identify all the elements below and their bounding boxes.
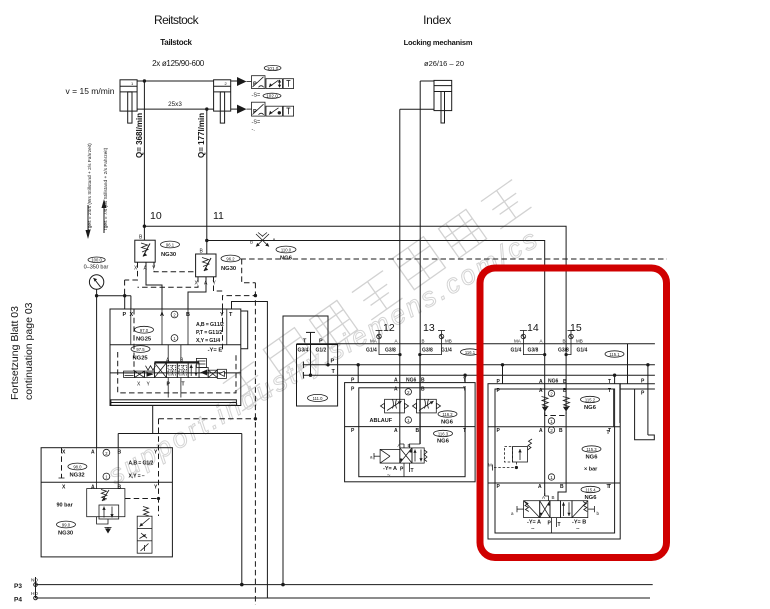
- svg-text:B: B: [563, 339, 566, 344]
- svg-text:P: P: [351, 387, 355, 393]
- svg-text:B: B: [186, 312, 190, 318]
- wire dashed drain frame: [118, 352, 236, 393]
- station 12/13 top labels: [351, 377, 466, 383]
- labels G ports station 14 15: [511, 348, 588, 354]
- svg-text:~: ~: [387, 473, 391, 479]
- node circled 1 mid: [548, 474, 554, 480]
- node circled 1 block98: [103, 473, 110, 480]
- wire Y dashed column: [158, 419, 160, 516]
- svg-text:Locking mechanism: Locking mechanism: [404, 38, 473, 47]
- manifold top line: [297, 343, 655, 345]
- test point MB station 15: [568, 331, 575, 344]
- svg-text:X: X: [130, 312, 134, 318]
- svg-text:MA: MA: [514, 339, 521, 344]
- svg-text:1: 1: [550, 419, 553, 424]
- svg-text:P3: P3: [14, 583, 22, 590]
- station 12/13 outer: [345, 383, 476, 482]
- cartridge valve right: [137, 507, 152, 554]
- check valve A 115.2: [542, 397, 549, 412]
- wire index bottom port: [400, 109, 434, 448]
- wire cylinder top line: [137, 80, 239, 82]
- svg-text:P: P: [123, 312, 127, 318]
- svg-text:NG6: NG6: [437, 439, 450, 445]
- svg-text:12: 12: [383, 322, 395, 334]
- svg-text:T: T: [463, 378, 466, 384]
- svg-text:A: A: [91, 485, 95, 491]
- wire dashed Y from main block: [223, 296, 256, 309]
- svg-text:~: ~: [576, 527, 580, 533]
- svg-text:P,T = G1 1/2: P,T = G1 1/2: [196, 330, 222, 336]
- station 14/15 lower labels: [497, 484, 612, 490]
- node T junction: [309, 374, 312, 377]
- svg-text:96.1: 96.1: [166, 243, 175, 248]
- wire pilot X network 96.2: [138, 277, 223, 291]
- wire T drop station14: [614, 375, 616, 384]
- label oval 101.0: [264, 65, 281, 70]
- svg-text:B: B: [139, 235, 143, 241]
- wire dashed to relief valve Y: [159, 418, 256, 420]
- label oval 102.0: [263, 93, 281, 98]
- svg-text:G1/4: G1/4: [511, 348, 522, 354]
- svg-text:T: T: [182, 382, 185, 388]
- station 14/15 top labels: [497, 379, 612, 385]
- wire index top port: [420, 81, 434, 444]
- test point MA station 12: [376, 331, 383, 344]
- svg-text:-Y= E: -Y= E: [208, 348, 223, 354]
- relief valve 99.0 body: [87, 489, 125, 517]
- svg-text:A: A: [540, 339, 543, 344]
- pressure reducing valve 115.3: [493, 439, 533, 471]
- svg-text:HD: HD: [31, 591, 38, 597]
- highlight red box: [480, 268, 667, 558]
- wire X dashed inside: [61, 448, 63, 478]
- test point MB station 13: [438, 331, 445, 344]
- svg-text:-S=: -S=: [252, 120, 261, 126]
- svg-text:T: T: [332, 369, 336, 375]
- svg-text:T: T: [608, 379, 611, 385]
- svg-text:97.5: 97.5: [136, 347, 145, 352]
- wire P feed down: [124, 296, 126, 309]
- wire MB bracket 15: [566, 344, 571, 355]
- svg-text:97.0: 97.0: [140, 328, 149, 333]
- svg-text:Y: Y: [154, 485, 158, 491]
- svg-text:v = 15 m/min: v = 15 m/min: [66, 86, 115, 96]
- svg-text:0–350 bar: 0–350 bar: [84, 265, 109, 271]
- wire cylinder bottom line: [137, 108, 239, 110]
- node circled 2 station12: [405, 389, 411, 395]
- wire MA bracket: [379, 344, 400, 355]
- svg-text:B: B: [421, 378, 425, 384]
- svg-text:T: T: [411, 468, 414, 474]
- wire column at 627: [627, 344, 629, 384]
- labels MA A B MB station14 15: [514, 339, 583, 344]
- rail P: [303, 362, 655, 369]
- svg-text:A: A: [91, 450, 95, 456]
- svg-text:T: T: [229, 312, 233, 318]
- wire B jog into valve 115.4: [557, 500, 559, 502]
- wire MA bracket 14: [523, 344, 544, 355]
- node circled 2: [171, 311, 178, 318]
- svg-text:A: A: [395, 339, 398, 344]
- svg-text:NG6: NG6: [585, 495, 598, 501]
- label oval 99.0 NG30: [57, 521, 76, 536]
- wire T inner column: [614, 384, 620, 427]
- svg-text:90 bar: 90 bar: [57, 503, 74, 509]
- drain arrow symbol: [105, 528, 112, 534]
- wire dashed pilot long horizontal: [240, 258, 667, 260]
- svg-text:P: P: [351, 428, 355, 434]
- svg-text:NG30: NG30: [221, 266, 236, 272]
- label thread sizes block98: [129, 461, 154, 480]
- svg-text:b: b: [597, 511, 600, 516]
- svg-text:116.2: 116.2: [442, 412, 453, 417]
- svg-text:11: 11: [213, 210, 224, 222]
- svg-text:G1/2: G1/2: [316, 348, 327, 354]
- pressure switch S1: [247, 76, 294, 89]
- wire P T stubs below valve: [404, 463, 410, 477]
- svg-text:B: B: [408, 443, 411, 448]
- label A B small 14: [542, 495, 555, 500]
- svg-text:Fortsetzung Blatt 03: Fortsetzung Blatt 03: [9, 306, 21, 400]
- svg-text:A: A: [398, 443, 401, 448]
- main block inner dividers: [131, 309, 227, 345]
- wire spool heavy bar: [155, 361, 200, 363]
- svg-text:100.0: 100.0: [91, 258, 102, 263]
- labels P P right: [641, 379, 645, 397]
- wire right enclosure: [620, 384, 655, 389]
- node junction at 206: [205, 239, 208, 242]
- svg-text:B: B: [250, 240, 253, 245]
- block 98/99 outer: [41, 448, 172, 557]
- label oval 96.1: [161, 241, 180, 258]
- svg-text:NG32: NG32: [70, 473, 85, 479]
- svg-text:102.0: 102.0: [266, 94, 278, 99]
- svg-text:115.3: 115.3: [586, 447, 597, 452]
- wire P drop station14: [502, 365, 504, 384]
- watermark band: [220, 176, 531, 411]
- wire A drop into valve 115.4: [545, 493, 549, 501]
- label oval 115.2 NG6: [581, 396, 600, 411]
- label oval 96.2: [221, 255, 240, 272]
- svg-text:X: X: [62, 450, 66, 456]
- labels MA A B MB: [370, 339, 452, 344]
- svg-text:B: B: [563, 379, 567, 385]
- svg-text:2: 2: [550, 428, 553, 433]
- node P junction: [326, 363, 329, 366]
- svg-text:-Y= A: -Y= A: [527, 520, 541, 526]
- svg-text:A: A: [394, 378, 398, 384]
- wire dashed X pilot inside block: [133, 309, 135, 371]
- wire T port jog to return line: [232, 302, 268, 599]
- svg-text:G3/8: G3/8: [558, 348, 569, 354]
- label oval 115.3 NG6: [582, 446, 601, 461]
- note continuation page 03 rotated: [9, 302, 35, 400]
- bottom line P3: [34, 577, 653, 598]
- node circled 2 block98: [103, 449, 110, 456]
- label oval 97.0 NG25: [135, 326, 154, 342]
- wire B inside block: [117, 448, 119, 489]
- svg-text:~: ~: [531, 527, 535, 533]
- svg-text:-Y= A: -Y= A: [383, 466, 397, 472]
- svg-text:MB: MB: [445, 339, 452, 344]
- svg-text:ø26/16 – 20: ø26/16 – 20: [424, 59, 464, 68]
- wire dashed relief to Y: [125, 498, 159, 500]
- svg-text:continuation page 03: continuation page 03: [23, 302, 35, 400]
- test point MA station 14: [520, 331, 527, 344]
- svg-text:A: A: [394, 428, 398, 434]
- svg-text:M: M: [488, 463, 492, 468]
- svg-text:Y: Y: [220, 312, 224, 318]
- label oval 97.5 NG25: [131, 346, 150, 362]
- wire 111 T column: [306, 332, 315, 375]
- node P junction: [123, 294, 126, 297]
- label thread sizes: [196, 322, 224, 344]
- svg-text:P: P: [641, 391, 645, 397]
- svg-text:14: 14: [527, 322, 539, 334]
- svg-text:NG25: NG25: [136, 337, 152, 343]
- station 14/15 outer: [488, 384, 620, 539]
- svg-text:Q= 177l/min: Q= 177l/min: [197, 113, 206, 158]
- node Y junction: [157, 497, 160, 500]
- svg-text:Y: Y: [147, 382, 151, 388]
- svg-text:NG30: NG30: [161, 252, 176, 258]
- wire MB bracket: [420, 344, 442, 355]
- wire long horizontal to station 15: [144, 226, 566, 501]
- svg-text:1: 1: [550, 475, 553, 480]
- wire A port 96.2 down: [188, 277, 206, 309]
- svg-text:B: B: [559, 428, 563, 434]
- check valve B 115.2: [563, 397, 570, 412]
- svg-text:A,B = G1 1/2: A,B = G1 1/2: [196, 322, 224, 328]
- svg-text:NG6: NG6: [584, 405, 597, 411]
- wire dashed link check valves: [545, 413, 566, 416]
- svg-text:P: P: [167, 382, 171, 388]
- node junction bottom: [205, 107, 208, 110]
- svg-text:P: P: [400, 467, 404, 473]
- proportional valve 97.5 spool: [124, 358, 227, 378]
- svg-text:B: B: [422, 339, 425, 344]
- svg-text:NG25: NG25: [133, 356, 149, 362]
- wire dashed Y pilot inside block: [222, 309, 224, 352]
- svg-text:X: X: [62, 485, 66, 491]
- wire right P loop: [635, 365, 655, 440]
- wire pilot drain loop right of block: [241, 311, 248, 349]
- svg-text:25x3: 25x3: [168, 101, 182, 108]
- cylinder 2 (tailstock right): [214, 80, 231, 123]
- svg-text:2: 2: [407, 390, 410, 395]
- gauge 100.0: [88, 257, 105, 263]
- node circled 2 station14: [548, 390, 554, 396]
- svg-text:110.0: 110.0: [281, 248, 292, 253]
- label oval 110.0: [276, 246, 296, 261]
- svg-text:G1/4: G1/4: [366, 348, 377, 354]
- flow control valve right: [413, 399, 441, 413]
- node junction top: [143, 79, 146, 82]
- label oval 115.4 NG6: [581, 486, 600, 501]
- svg-text:-S=: -S=: [252, 93, 261, 99]
- block 98 port labels: [62, 450, 158, 456]
- svg-text:2: 2: [105, 451, 108, 456]
- svg-text:X,Y = –: X,Y = –: [129, 474, 145, 480]
- svg-text:96.2: 96.2: [226, 257, 235, 262]
- svg-text:X,Y = G1/4: X,Y = G1/4: [196, 338, 220, 344]
- block 111.0: [297, 345, 338, 407]
- svg-text:B: B: [421, 387, 425, 393]
- wire B drop into valve: [410, 355, 420, 448]
- svg-text:T: T: [558, 522, 561, 528]
- label oval 116.2 NG6: [438, 411, 457, 426]
- wire A inside block: [96, 448, 98, 489]
- svg-text:NG6: NG6: [441, 420, 454, 426]
- flow control valve left: [381, 399, 409, 413]
- svg-text:Tailstock: Tailstock: [160, 38, 192, 47]
- wire T drop station12: [464, 375, 466, 382]
- svg-text:P: P: [497, 484, 501, 490]
- node circled 1: [171, 335, 178, 342]
- svg-text:A,B = G1/2: A,B = G1/2: [129, 461, 154, 467]
- labels G ports station 12 13: [366, 348, 452, 354]
- svg-text:NG6: NG6: [548, 379, 559, 385]
- svg-text:115.2: 115.2: [585, 398, 596, 403]
- svg-text:Index: Index: [423, 13, 451, 27]
- svg-text:2: 2: [173, 313, 176, 318]
- node junction at 144: [143, 225, 146, 228]
- node P3 junction left: [240, 583, 244, 587]
- wire gauge stem: [97, 289, 131, 309]
- svg-text:10: 10: [150, 210, 162, 222]
- svg-text:× bar: × bar: [584, 467, 598, 473]
- svg-text:Reitstock: Reitstock: [154, 13, 200, 27]
- pilot stage valve: [99, 505, 119, 519]
- svg-text:ABLAUF: ABLAUF: [370, 418, 393, 424]
- svg-text:-.: -.: [252, 127, 256, 133]
- node circled 1 station12: [405, 417, 411, 423]
- svg-text:A: A: [539, 428, 543, 434]
- wire Q=177 vertical: [206, 109, 208, 254]
- node dashed junction: [254, 294, 257, 297]
- label a b pilots: [511, 511, 600, 516]
- wire dashed pilot drop: [242, 259, 256, 283]
- wire spool A B columns: [168, 345, 181, 398]
- rail T: [303, 372, 655, 378]
- svg-text:Q= 368l/min: Q= 368l/min: [135, 113, 144, 158]
- svg-text:A: A: [160, 312, 164, 318]
- wire P main supply riser: [283, 316, 328, 585]
- svg-text:P4: P4: [14, 597, 22, 604]
- label oval 115.1: [605, 351, 624, 357]
- arrow to pressure switch 1: [237, 77, 247, 86]
- svg-text:NG6: NG6: [406, 377, 417, 383]
- svg-text:G3/8: G3/8: [422, 348, 433, 354]
- svg-text:98.0: 98.0: [73, 465, 82, 470]
- svg-text:T: T: [607, 430, 610, 436]
- svg-text:15: 15: [570, 322, 582, 334]
- pressure switch S2: [247, 102, 294, 116]
- svg-text:A: A: [542, 495, 545, 500]
- svg-text:A: A: [273, 237, 276, 242]
- label T T right: [607, 430, 610, 490]
- wire A port 96.1 down: [146, 262, 162, 309]
- directional valve 116.3: [374, 448, 427, 463]
- wire relief loop: [97, 517, 108, 531]
- wire dashed Y 96.1 link: [154, 262, 196, 272]
- directional valve 115.4: [517, 501, 594, 518]
- svg-text:G3/4: G3/4: [298, 348, 309, 354]
- svg-text:G3/8: G3/8: [385, 348, 396, 354]
- svg-text:1: 1: [131, 81, 134, 86]
- label oval 116.1: [461, 349, 480, 355]
- svg-text:P: P: [253, 109, 257, 115]
- svg-text:G3/8: G3/8: [528, 348, 539, 354]
- svg-text:X: X: [137, 382, 141, 388]
- wire dashed pilot down page: [254, 283, 256, 605]
- svg-text:1: 1: [105, 475, 108, 480]
- node gauge junction: [95, 294, 98, 297]
- svg-text:B: B: [552, 495, 555, 500]
- valve 96.2 NG30: [196, 254, 216, 277]
- main block port labels: [123, 312, 234, 318]
- svg-text:B: B: [416, 428, 420, 434]
- svg-text:A: A: [539, 388, 543, 394]
- wire P T stubs below valve 115.4: [552, 518, 557, 533]
- svg-text:99.0: 99.0: [62, 523, 71, 528]
- label spool ports: [137, 358, 185, 388]
- svg-text:ND: ND: [31, 578, 38, 584]
- label A B small: [398, 443, 411, 448]
- station 14/15 mid labels: [497, 428, 612, 434]
- svg-text:1: 1: [407, 418, 410, 423]
- svg-text:G1/4: G1/4: [441, 348, 452, 354]
- svg-text:P: P: [497, 428, 501, 434]
- svg-text:115.4: 115.4: [585, 488, 596, 493]
- svg-text:1: 1: [173, 336, 176, 341]
- svg-text:MA: MA: [370, 339, 377, 344]
- index cylinder: [434, 80, 452, 123]
- svg-text:B: B: [563, 388, 567, 394]
- wire long horizontal to station 14: [207, 241, 545, 497]
- svg-text:T: T: [463, 387, 466, 393]
- wire B return from block bottom: [118, 406, 242, 585]
- svg-text:A: A: [394, 387, 398, 393]
- svg-text:P: P: [331, 359, 335, 365]
- svg-text:P: P: [253, 82, 257, 88]
- label oval 116.3 NG6: [434, 430, 453, 444]
- svg-text:-Y= B: -Y= B: [572, 520, 586, 526]
- svg-text:101.0: 101.0: [267, 66, 279, 71]
- svg-text:B: B: [560, 484, 564, 490]
- arrow to pressure switch 2: [237, 105, 247, 114]
- svg-text:2x ø125/90-600: 2x ø125/90-600: [152, 59, 205, 68]
- note tges rotated with arrows: [87, 143, 109, 230]
- svg-text:T: T: [463, 428, 466, 434]
- svg-text:2: 2: [550, 392, 553, 397]
- node dashed junction lower: [254, 417, 257, 420]
- svg-text:116.1: 116.1: [465, 350, 476, 355]
- node P3 junction right: [281, 583, 285, 587]
- svg-text:A: A: [539, 379, 543, 385]
- svg-text:A: A: [538, 484, 542, 490]
- wire P drop station12: [357, 365, 359, 383]
- svg-text:116.3: 116.3: [438, 432, 449, 437]
- svg-text:a: a: [511, 511, 514, 516]
- svg-text:MB: MB: [576, 339, 583, 344]
- svg-text:111.0: 111.0: [313, 396, 324, 401]
- wire A drop into valve: [400, 440, 404, 448]
- gauge dial: [89, 275, 103, 289]
- svg-text:13: 13: [423, 322, 435, 334]
- bottom line P4: [34, 596, 650, 600]
- wire pilot X network 96.1: [125, 262, 138, 296]
